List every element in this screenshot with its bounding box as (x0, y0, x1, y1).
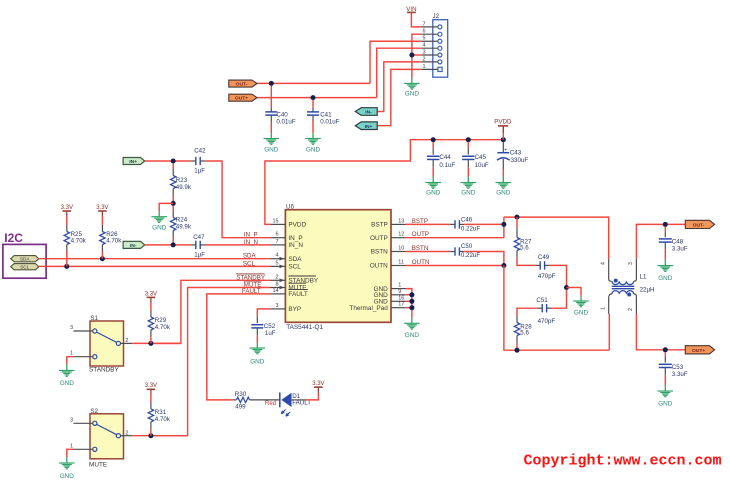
wire J2 pin 5 to OUT- row (370, 41, 422, 83)
ground for C44 (425, 182, 441, 184)
wire BSTP to C46 (406, 223, 450, 225)
wire C46 to OUTP node (464, 223, 504, 225)
svg-text:1: 1 (70, 351, 73, 357)
wire J2 pin 2 to IN- flag (377, 62, 422, 112)
svg-text:330uF: 330uF (511, 157, 529, 164)
svg-text:2: 2 (423, 56, 426, 62)
svg-text:0.1uF: 0.1uF (439, 162, 455, 169)
resistor R29 (150, 303, 152, 311)
capacitor C47 (191, 244, 196, 246)
svg-text:STANDBY: STANDBY (89, 367, 119, 374)
svg-text:2: 2 (125, 430, 128, 436)
svg-text:1µF: 1µF (194, 168, 205, 175)
junction PVDD/C44 (431, 137, 436, 142)
svg-text:13: 13 (398, 218, 404, 224)
svg-text:C51: C51 (536, 297, 548, 304)
wire C47 to IN_N (205, 244, 270, 246)
svg-text:3.3uF: 3.3uF (672, 371, 688, 378)
junction IN+/R23 (171, 159, 176, 164)
svg-text:1uF: 1uF (265, 330, 276, 337)
svg-text:OUT-: OUT- (236, 82, 248, 88)
resistor R28 (516, 316, 518, 323)
svg-text:1: 1 (398, 283, 401, 289)
svg-text:10: 10 (398, 246, 404, 252)
svg-text:GND: GND (250, 359, 265, 366)
wire J2 pin 4 to OUT+ row (377, 48, 422, 97)
wire OUT+ net row (257, 97, 377, 99)
svg-text:12: 12 (398, 232, 404, 238)
resistor R27 (516, 217, 518, 228)
svg-text:3: 3 (628, 262, 634, 265)
svg-text:5: 5 (276, 260, 279, 266)
svg-text:2: 2 (276, 274, 279, 280)
svg-text:GND: GND (658, 275, 673, 282)
port flag IN+ (green, left) (123, 158, 145, 165)
ground GND below J2 (411, 78, 413, 84)
wire J2 pin 1 to IN+ flag (377, 69, 422, 125)
svg-text:C50: C50 (461, 243, 473, 250)
svg-text:+: + (504, 148, 507, 154)
op-amp/IC U6 TAS5441-Q1 body (285, 210, 391, 323)
svg-text:SDA: SDA (20, 257, 30, 262)
svg-text:16: 16 (398, 295, 404, 301)
junction PVDD/C45 (466, 137, 471, 142)
svg-text:IN_N: IN_N (244, 239, 258, 246)
S2 pin 1 (74, 448, 93, 450)
power symbol 3.3V for D1 (317, 387, 319, 393)
port flag IN- (teal, to J2) (355, 108, 377, 116)
port flag OUT- (right) (685, 220, 714, 228)
capacitor C46 (450, 223, 455, 225)
ground for U6 (411, 318, 413, 323)
svg-text:2: 2 (628, 308, 634, 311)
ground for Zobel network (573, 300, 589, 302)
resistor R26 (101, 217, 103, 226)
svg-text:5.6: 5.6 (520, 244, 529, 251)
capacitor C42 (191, 160, 196, 162)
wire IN+ to C42 (145, 160, 191, 162)
svg-text:OUT+: OUT+ (235, 96, 248, 102)
S1 pin 1 (74, 356, 93, 358)
svg-text:GND: GND (496, 190, 511, 197)
wire U6 GND bus (406, 289, 412, 318)
U6 pin 17 Thermal_Pad (391, 307, 406, 309)
J2 pin 1 (422, 68, 438, 70)
svg-text:GND: GND (574, 310, 589, 317)
LED D1 FAULT (279, 392, 281, 407)
svg-text:Copyright:www.eccn.com: Copyright:www.eccn.com (524, 453, 722, 470)
junction SCL/R25 (64, 264, 69, 269)
svg-text:1µF: 1µF (194, 251, 205, 258)
svg-text:470pF: 470pF (538, 318, 556, 325)
svg-text:L1: L1 (640, 273, 647, 280)
U6 pin 16 GND (391, 300, 406, 302)
S1 pin 2 (121, 342, 133, 344)
switch S2 body (90, 414, 124, 459)
U6 pin 7 IN_N (271, 244, 286, 246)
svg-text:GND: GND (264, 146, 279, 153)
svg-text:0.22uF: 0.22uF (461, 252, 480, 259)
resistor R24 (172, 206, 174, 211)
wire OUTP top rail to L1 pin 4 (504, 217, 609, 259)
svg-text:GND: GND (60, 473, 75, 480)
U6 pin 15 PVDD (271, 223, 286, 225)
wire MUTE net (151, 288, 271, 436)
svg-text:GND: GND (405, 332, 420, 339)
wire OUTP pin row (406, 237, 504, 239)
wire LED to 3.3V (292, 399, 307, 401)
U6 pin 14 FAULT (271, 293, 286, 295)
wire bottom rail to L1 pin 1 (608, 314, 610, 350)
port flag IN- (green, left) (123, 241, 145, 248)
junction C50/OUTN (501, 263, 506, 268)
svg-text:22µH: 22µH (640, 287, 655, 294)
svg-text:4.70k: 4.70k (106, 238, 122, 245)
capacitor C44 (432, 142, 434, 148)
S2 pin 3 (74, 422, 93, 424)
U6 pin 8 MUTE (271, 287, 286, 289)
junction GND pin 16 (409, 299, 414, 304)
capacitor C50 (450, 251, 455, 253)
ground for C43 (496, 182, 512, 184)
U6 pin 5 SCL (271, 265, 286, 267)
svg-text:5.6: 5.6 (520, 330, 529, 337)
S2 contacts and lever (93, 421, 97, 425)
capacitor C41 (312, 100, 314, 107)
svg-text:C47: C47 (193, 234, 205, 241)
J2 pin 6 (422, 33, 438, 35)
J2 pin 4 (422, 47, 438, 49)
svg-text:FAULT: FAULT (292, 400, 311, 407)
svg-text:GND: GND (461, 190, 476, 197)
wire S1 pin2 to R29 (132, 342, 181, 344)
svg-text:2: 2 (125, 338, 128, 344)
ground for C48 (658, 265, 674, 267)
svg-text:OUT+: OUT+ (692, 348, 705, 354)
svg-text:470pF: 470pF (538, 273, 556, 280)
ground for C52 (250, 347, 266, 349)
wire PVDD rail from U6 pin15 (265, 140, 503, 225)
svg-text:4: 4 (276, 253, 279, 259)
capacitor C45 (467, 142, 469, 148)
svg-text:C44: C44 (439, 154, 451, 161)
svg-text:6: 6 (276, 232, 279, 238)
capacitor C53 (664, 352, 666, 357)
svg-text:3: 3 (70, 325, 73, 331)
svg-text:C41: C41 (320, 112, 332, 119)
wire IN- to C47 (145, 244, 191, 246)
U6 pin 11 OUTN (391, 265, 406, 267)
connector J2 (433, 20, 448, 77)
svg-text:IN-: IN- (130, 243, 137, 249)
svg-text:IN_P: IN_P (244, 232, 258, 239)
port flag OUT+ (right) (685, 346, 714, 354)
port flag OUT+ (left) (229, 94, 257, 101)
svg-text:PVDD: PVDD (288, 222, 306, 229)
svg-text:IN-: IN- (365, 110, 372, 116)
wire SDA row (39, 258, 271, 260)
svg-text:4: 4 (600, 262, 606, 265)
svg-text:14: 14 (272, 288, 278, 294)
port flag IN+ (teal, to J2) (355, 122, 377, 130)
inductor L1 22uH (608, 259, 610, 279)
svg-text:3: 3 (276, 303, 279, 309)
U6 pin 1 GND (391, 288, 406, 290)
svg-text:S1: S1 (90, 315, 98, 322)
wire OUTP vertical riser (503, 217, 505, 238)
svg-text:SCL: SCL (20, 265, 29, 270)
svg-text:BSTN: BSTN (371, 249, 388, 256)
wire C49 to GND node (550, 265, 567, 287)
resistor R30 (233, 399, 237, 401)
svg-text:BYP: BYP (288, 306, 301, 313)
svg-text:0.01uF: 0.01uF (276, 119, 295, 126)
wire BYP to C52 (257, 309, 270, 316)
wire C42 to IN_P (205, 161, 270, 238)
svg-text:PVDD: PVDD (494, 119, 512, 126)
wire OUTN down to bottom rail (504, 266, 609, 351)
svg-text:GND: GND (152, 225, 167, 232)
wire FAULT net (207, 294, 271, 400)
S1 contacts and lever (93, 329, 97, 333)
junction OUT-/C40 (269, 81, 274, 86)
capacitor C48 (664, 227, 666, 232)
svg-text:7: 7 (276, 239, 279, 245)
junction OUT+/C53 (663, 347, 668, 352)
capacitor C49 (535, 264, 540, 266)
harness entry SCL (11, 264, 39, 270)
wire to ground (Zobel) (567, 288, 582, 296)
svg-text:C49: C49 (538, 254, 550, 261)
U6 pin 4 SDA (271, 258, 286, 260)
junction S2/R31 (148, 433, 153, 438)
U6 pin 12 OUTP (391, 237, 406, 239)
svg-text:GND: GND (658, 400, 673, 407)
junction PVDD/C43 (501, 137, 506, 142)
resistor R25 (66, 217, 68, 226)
svg-text:GND: GND (405, 91, 420, 98)
svg-text:1: 1 (70, 443, 73, 449)
svg-text:IN_N: IN_N (288, 242, 303, 249)
U6 pin 13 BSTP (391, 223, 406, 225)
svg-text:3.3V: 3.3V (145, 383, 157, 389)
svg-text:3: 3 (423, 49, 426, 55)
U6 pin 9 GND (391, 294, 406, 296)
harness box I2C (3, 244, 46, 278)
svg-text:49.9k: 49.9k (176, 223, 192, 230)
svg-text:GND: GND (306, 146, 321, 153)
U6 pin 2 STANDBY (271, 279, 286, 281)
svg-text:C45: C45 (475, 154, 487, 161)
harness entry SDA (11, 256, 39, 262)
U6 pin 10 BSTN (391, 251, 406, 253)
svg-text:10uF: 10uF (475, 162, 489, 169)
capacitor C51 (547, 307, 552, 309)
svg-text:C43: C43 (510, 149, 522, 156)
svg-text:4.70k: 4.70k (155, 416, 171, 423)
svg-text:0.01uF: 0.01uF (320, 119, 339, 126)
svg-text:C40: C40 (276, 112, 288, 119)
svg-text:IN+: IN+ (129, 159, 137, 165)
junction OUT-/C48 (663, 222, 668, 227)
svg-text:C42: C42 (194, 148, 206, 155)
svg-text:9: 9 (398, 289, 401, 295)
svg-text:OUTP: OUTP (370, 235, 388, 242)
S2 pin 2 (121, 435, 133, 437)
svg-text:FAULT: FAULT (288, 291, 308, 298)
svg-text:3.3V: 3.3V (145, 291, 157, 297)
ground for C41 (305, 138, 321, 140)
svg-text:S2: S2 (90, 408, 98, 415)
svg-text:C48: C48 (672, 238, 684, 245)
junction IN-/R24 (171, 242, 176, 247)
svg-text:U6: U6 (286, 203, 294, 210)
wire SCL row (39, 265, 271, 267)
svg-text:17: 17 (398, 302, 404, 308)
svg-text:4: 4 (423, 43, 426, 49)
svg-text:5: 5 (423, 36, 426, 42)
U6 pin 6 IN_P (271, 237, 286, 239)
wire GND bus J2 pins 6,3 (412, 34, 422, 78)
svg-text:Thermal_Pad: Thermal_Pad (349, 305, 388, 312)
svg-text:OUTN: OUTN (370, 263, 388, 270)
svg-text:IN+: IN+ (365, 124, 373, 130)
wire L1 pin 2 to OUT+ (636, 314, 685, 350)
ground for R23/R24 midpoint (151, 216, 167, 218)
wire C51 to R28 (517, 308, 537, 316)
junction C46/OUTP (501, 222, 506, 227)
svg-text:1: 1 (600, 307, 606, 310)
junction OUT+/C41 (311, 95, 316, 100)
svg-text:SDA: SDA (288, 256, 302, 263)
svg-text:C46: C46 (461, 216, 473, 223)
switch S1 body (90, 321, 124, 366)
polarized capacitor C43 (502, 142, 504, 152)
svg-text:499: 499 (235, 403, 246, 410)
svg-text:MUTE: MUTE (89, 461, 107, 468)
svg-text:OUT-: OUT- (693, 223, 705, 229)
wire J2 pin 3 stub (412, 54, 422, 56)
svg-text:C52: C52 (264, 323, 276, 330)
wire BSTN to C50 (406, 251, 450, 253)
svg-text:1: 1 (423, 64, 426, 70)
svg-text:SCL: SCL (288, 264, 301, 271)
svg-text:3.3uF: 3.3uF (672, 246, 688, 253)
junction GND pin 17 (409, 305, 414, 310)
ground for C45 (461, 182, 477, 184)
svg-text:8: 8 (276, 282, 279, 288)
svg-text:R30: R30 (235, 391, 247, 398)
S1 pin 3 (74, 330, 93, 332)
junction C49/C51/GND (564, 285, 569, 290)
U6 pin 3 BYP (271, 308, 286, 310)
ground for C40 (264, 138, 280, 140)
wire S1 pin1 to ground (67, 357, 74, 365)
svg-text:49.9k: 49.9k (176, 184, 192, 191)
junction OUTN/R28 (515, 348, 520, 353)
svg-text:15: 15 (272, 218, 278, 224)
junction OUTP/R27 (515, 215, 520, 220)
junction SDA/R26 (100, 256, 105, 261)
svg-text:4.70k: 4.70k (71, 238, 87, 245)
wire S2 pin2 to R31 (132, 435, 187, 437)
wire VIN to J2 pin 7 (411, 13, 421, 27)
wire L1 pin 3 to OUT- (636, 224, 685, 259)
capacitor C52 (256, 316, 258, 323)
svg-text:TAS5441-Q1: TAS5441-Q1 (286, 324, 323, 331)
J2 pin 3 (422, 54, 438, 56)
ground for S2 (59, 462, 75, 464)
svg-text:IN_P: IN_P (288, 235, 302, 242)
wire OUTN pin row (406, 265, 504, 267)
wire GND node down to C51 (552, 290, 567, 309)
wire S2 pin1 to ground (67, 449, 74, 457)
resistor R31 (150, 395, 152, 402)
svg-text:GND: GND (60, 380, 75, 387)
svg-text:0.22uF: 0.22uF (461, 226, 480, 233)
J2 pin 7 (422, 26, 438, 28)
wire STANDBY net (151, 280, 271, 343)
svg-text:SDA: SDA (243, 253, 257, 260)
capacitor C40 (270, 86, 272, 108)
J2 pin 5 (422, 40, 438, 42)
wire C50 to OUTN node (464, 252, 504, 266)
svg-text:11: 11 (398, 260, 404, 266)
junction S1/R29 (148, 341, 153, 346)
svg-text:BSTP: BSTP (371, 222, 388, 229)
svg-text:3.3V: 3.3V (312, 381, 324, 387)
port flag OUT- (left) (229, 80, 257, 87)
svg-text:4.70k: 4.70k (155, 324, 171, 331)
wire OUT- net row (257, 82, 370, 84)
J2 pin 2 (422, 61, 438, 63)
svg-text:7: 7 (423, 21, 426, 27)
junction J2 pin3/GND (409, 53, 414, 58)
ground for C53 (658, 390, 674, 392)
junction R23/R24 midpoint (171, 201, 176, 206)
junction GND pin 9 (409, 292, 414, 297)
svg-text:Red: Red (265, 400, 277, 407)
resistor R23 (172, 163, 174, 169)
wire midpoint to ground (159, 203, 173, 211)
svg-text:SCL: SCL (243, 260, 256, 267)
svg-text:3: 3 (70, 417, 73, 423)
svg-text:I2C: I2C (4, 231, 23, 245)
svg-text:6: 6 (423, 29, 426, 35)
ground for S1 (59, 370, 75, 372)
svg-text:GND: GND (426, 190, 441, 197)
svg-text:C53: C53 (672, 364, 684, 371)
svg-text:J2: J2 (433, 13, 440, 20)
